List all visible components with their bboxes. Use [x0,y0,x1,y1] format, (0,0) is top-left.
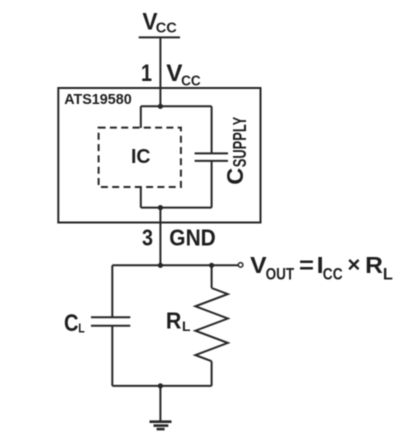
svg-text:CC: CC [181,72,201,89]
svg-text:SUPPLY: SUPPLY [229,116,250,167]
svg-text:GND: GND [169,225,216,251]
svg-text:1: 1 [141,60,152,87]
svg-text:L: L [383,264,393,283]
svg-text:IC: IC [131,145,151,168]
svg-text:V: V [250,252,267,278]
svg-text:3: 3 [142,225,153,251]
svg-text:C: C [222,168,248,185]
svg-text:×: × [347,252,360,277]
svg-text:R: R [365,252,383,278]
svg-text:=: = [299,252,314,278]
svg-text:L: L [78,320,85,335]
svg-text:R: R [166,308,182,334]
svg-text:CC: CC [323,264,343,283]
svg-text:L: L [182,318,191,334]
svg-text:CC: CC [156,20,177,37]
svg-text:C: C [64,310,79,337]
svg-text:OUT: OUT [266,264,295,283]
svg-text:ATS19580: ATS19580 [64,92,132,108]
